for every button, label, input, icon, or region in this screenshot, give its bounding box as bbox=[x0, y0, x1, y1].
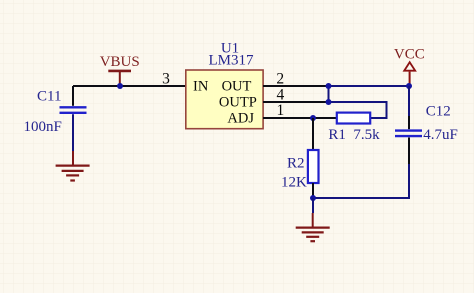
ground GND1 (under C11) bbox=[56, 151, 90, 181]
svg-text:VBUS: VBUS bbox=[100, 54, 140, 70]
junction dot VCC node bbox=[406, 83, 412, 89]
svg-text:100nF: 100nF bbox=[24, 119, 62, 135]
capacitor C12 bbox=[395, 86, 422, 164]
svg-text:4.7uF: 4.7uF bbox=[423, 127, 458, 143]
junction dot OUT node bbox=[326, 83, 332, 89]
wire VBUS net horizontal (C11 to U1 IN pin) bbox=[73, 85, 186, 87]
svg-text:R2: R2 bbox=[287, 155, 305, 171]
wire C12 bottom to R2 bottom node bbox=[313, 164, 409, 198]
svg-text:1: 1 bbox=[277, 102, 285, 119]
resistor R2 bbox=[308, 118, 319, 198]
svg-text:R1 7.5k: R1 7.5k bbox=[328, 127, 380, 143]
svg-text:OUTP: OUTP bbox=[219, 95, 257, 111]
svg-text:12K: 12K bbox=[281, 174, 307, 190]
capacitor C11 bbox=[60, 86, 87, 151]
junction dot OUTP node bbox=[326, 99, 332, 105]
wire OUT to VCC node bbox=[329, 85, 410, 87]
junction dot ADJ node bbox=[310, 115, 316, 121]
wire pin 4 stub (OUTP) bbox=[263, 101, 329, 103]
svg-text:IN: IN bbox=[193, 79, 209, 95]
svg-text:OUT: OUT bbox=[222, 79, 252, 95]
op-amp U1 LM317 body bbox=[186, 70, 263, 129]
svg-text:2: 2 bbox=[276, 71, 284, 88]
svg-text:C12: C12 bbox=[426, 103, 451, 119]
svg-text:C11: C11 bbox=[37, 88, 61, 104]
power port VBUS bbox=[100, 54, 140, 84]
svg-text:ADJ: ADJ bbox=[227, 111, 254, 127]
wire pin 1 stub (ADJ) to R1 bbox=[263, 117, 337, 119]
ground GND2 (under R2) bbox=[296, 198, 330, 241]
resistor R1 bbox=[337, 113, 370, 124]
junction dot R2 bottom node bbox=[310, 195, 316, 201]
junction dot VBUS node bbox=[117, 83, 123, 89]
power port VCC bbox=[394, 47, 425, 84]
wire pin 2 stub (OUT) bbox=[263, 85, 329, 87]
svg-text:3: 3 bbox=[162, 70, 170, 87]
wire OUTP to R1 right lead bbox=[329, 102, 387, 118]
svg-text:LM317: LM317 bbox=[209, 52, 255, 68]
wire OUT to OUTP vertical bbox=[328, 86, 330, 102]
svg-text:VCC: VCC bbox=[394, 47, 425, 63]
